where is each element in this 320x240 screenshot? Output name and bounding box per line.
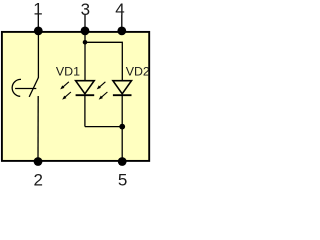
jumper wire junction to VD2 branch (85, 42, 122, 80)
pin 4 terminal dot (117, 27, 126, 36)
LED VD2 cathode bar (113, 94, 132, 96)
switch S1 movable contact (blade) (29, 77, 38, 97)
wire junction to VD1 anode (84, 42, 86, 80)
pin 5 terminal dot (118, 157, 127, 166)
wire VD1 cathode down (84, 95, 86, 126)
wire pin1 to switch (37, 31, 39, 78)
LED VD2 emission arrow a (97, 82, 106, 90)
pin 3 lead (84, 15, 86, 31)
LED VD1 emission arrow b (62, 92, 71, 100)
wire VD2 cathode to pin5 (121, 95, 123, 161)
pin 1 terminal dot (34, 27, 43, 36)
wire pin3 down to junction (84, 31, 86, 42)
svg-text:VD1: VD1 (56, 65, 80, 79)
svg-text:2: 2 (33, 170, 42, 189)
pin 4 lead (121, 15, 123, 31)
LED VD2 emission arrow b (99, 92, 108, 100)
component body box (2, 32, 149, 161)
svg-text:5: 5 (118, 170, 127, 189)
switch S1 fixed contact line (15, 88, 36, 90)
junction node at cathode join (119, 124, 125, 130)
wire VD1 to junction at VD2 leg (85, 126, 122, 128)
LED VD1 emission arrow a (60, 82, 69, 90)
switch S1 arc (12, 79, 21, 96)
LED VD2 triangle (113, 81, 132, 94)
pin 3 terminal dot (81, 27, 90, 36)
pin 1 lead (37, 15, 39, 32)
LED VD1 cathode bar (76, 94, 95, 96)
svg-text:VD2: VD2 (126, 65, 150, 79)
junction node at pin3 branch (83, 40, 88, 45)
LED VD1 triangle (76, 81, 95, 94)
wire switch to pin2 (37, 96, 39, 161)
pin 2 terminal dot (34, 157, 43, 166)
svg-text:4: 4 (115, 0, 124, 19)
